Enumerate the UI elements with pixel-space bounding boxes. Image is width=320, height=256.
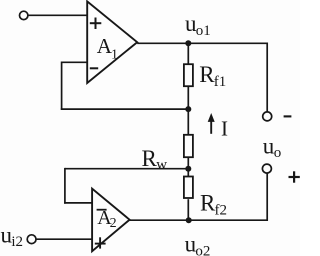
svg-text:R: R bbox=[199, 62, 215, 87]
node uo1 junction dot bbox=[185, 40, 191, 46]
svg-text:R: R bbox=[142, 146, 158, 171]
resistor Rw (middle) bbox=[184, 135, 193, 157]
wire: Rf1 to Rw bbox=[187, 87, 189, 135]
wire: A1 output bbox=[137, 42, 268, 44]
svg-text:o2: o2 bbox=[195, 243, 210, 256]
wire: ui2 to A2 + input bbox=[36, 238, 92, 240]
wire: A2 feedback horizontal bbox=[65, 168, 188, 170]
svg-text:I: I bbox=[221, 117, 228, 141]
op-amp A1 triangle bbox=[87, 1, 137, 83]
wire: A1 - input stub bbox=[62, 61, 88, 63]
A1 minus sign bbox=[90, 67, 98, 69]
wire: A2 feedback into - input bbox=[64, 202, 92, 204]
output terminal uo bbox=[262, 164, 271, 173]
wire: A2 output bbox=[130, 219, 268, 221]
input terminal ui2 bbox=[27, 235, 36, 244]
svg-text:f2: f2 bbox=[215, 202, 228, 218]
resistor Rf1 bbox=[184, 64, 193, 86]
svg-text:f1: f1 bbox=[214, 74, 227, 90]
wire: right vertical down to minus terminal bbox=[266, 43, 268, 112]
minus polarity sign bbox=[284, 115, 292, 117]
wire: uo2 node right and up to uo terminal bbox=[266, 173, 268, 221]
svg-text:o: o bbox=[274, 145, 282, 161]
wire: Rw to Rf2 bbox=[187, 158, 189, 177]
svg-text:1: 1 bbox=[111, 48, 118, 63]
svg-text:2: 2 bbox=[110, 216, 117, 231]
current arrow I bbox=[210, 120, 212, 134]
svg-text:i2: i2 bbox=[11, 234, 23, 250]
A2 plus sign bbox=[95, 243, 106, 245]
A1 plus sign bbox=[90, 22, 102, 24]
input terminal (top-left, A1 + input) bbox=[20, 11, 28, 19]
node uo2 junction dot bbox=[186, 217, 192, 223]
output terminal minus bbox=[263, 112, 272, 121]
node B junction dot (Rw/Rf2, A2 feedback) bbox=[185, 166, 191, 172]
wire: Rf2 down to output node bbox=[187, 199, 189, 220]
wire: A1 feedback vertical bbox=[61, 62, 63, 110]
wire: A2 feedback vertical bbox=[64, 168, 66, 204]
op-amp A2 triangle bbox=[92, 189, 130, 252]
wire: terminal to A1 + input bbox=[28, 14, 88, 16]
plus polarity sign bbox=[289, 176, 300, 178]
wire: A1 feedback horizontal to node bbox=[61, 108, 189, 110]
wire: node uo1 down to Rf1 bbox=[187, 43, 189, 64]
node A junction dot (Rf1/Rw, A1 feedback) bbox=[185, 106, 191, 112]
svg-text:o1: o1 bbox=[196, 23, 211, 39]
svg-text:w: w bbox=[156, 157, 167, 173]
resistor Rf2 bbox=[184, 177, 193, 199]
